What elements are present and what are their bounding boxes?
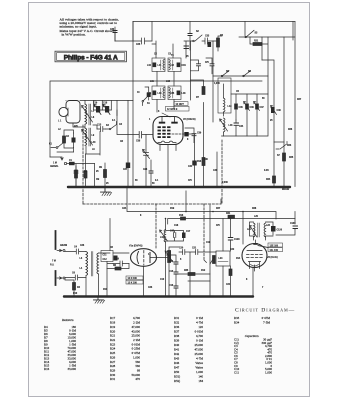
variable capacitor C19 (93, 103, 102, 115)
wire (216, 152, 218, 187)
svg-text:C126: C126 (277, 230, 283, 232)
wire (230, 219, 232, 252)
resistor R35 (188, 273, 195, 276)
trimmer capacitor C46 (244, 101, 255, 110)
trimmer capacitor C47 (254, 101, 265, 110)
svg-text:R27: R27 (297, 99, 302, 101)
svg-text:GRAM: GRAM (60, 244, 67, 247)
dashed gang link horizontal (83, 203, 221, 205)
svg-text:C16: C16 (169, 285, 174, 287)
svg-text:C22: C22 (230, 249, 235, 251)
svg-text:M1199: M1199 (282, 189, 290, 191)
node dots AF rails (63, 186, 244, 298)
wire (292, 22, 294, 41)
svg-text:C25: C25 (136, 44, 141, 46)
svg-text:C28: C28 (143, 169, 148, 171)
valve V2 UCH41 (153, 117, 184, 145)
capacitor C31 (147, 93, 151, 98)
svg-text:R18: R18 (179, 215, 184, 217)
capacitor C37 (210, 64, 214, 66)
wire (64, 130, 74, 152)
transformer T2 (80, 252, 99, 277)
capacitor C9 (113, 259, 129, 267)
capacitor C10 (114, 256, 118, 261)
svg-text:0·25M: 0·25M (132, 347, 141, 351)
wire (261, 37, 263, 60)
capacitor C6 (65, 273, 86, 281)
svg-text:V3 (UL41): V3 (UL41) (267, 256, 278, 259)
svg-text:C12: C12 (103, 259, 108, 261)
svg-text:R23: R23 (287, 145, 292, 147)
svg-text:AERIAL: AERIAL (50, 165, 59, 168)
wire (184, 41, 189, 58)
wire (75, 178, 77, 187)
svg-text:R25: R25 (289, 157, 294, 159)
capacitor C130 (293, 226, 298, 229)
resistor R22 (202, 87, 205, 95)
transformer T1 tuned winding (82, 104, 95, 125)
node junction dots bus2 (73, 295, 254, 297)
svg-text:C35: C35 (170, 93, 175, 95)
svg-text:R27: R27 (110, 360, 116, 364)
svg-text:C10: C10 (160, 279, 165, 281)
wire (274, 141, 284, 143)
svg-text:7 M: 7 M (52, 261, 56, 263)
svg-text:C14: C14 (169, 260, 174, 263)
capacitor C20 (179, 248, 185, 255)
resistor R1 (75, 170, 78, 178)
capacitor C27 (126, 163, 130, 169)
tone network box (216, 251, 230, 266)
ground symbol 2 (94, 298, 104, 300)
svg-text:V2 (UCH41): V2 (UCH41) (183, 118, 196, 121)
wire (262, 60, 274, 176)
svg-text:C38: C38 (136, 141, 141, 143)
svg-text:R47: R47 (174, 366, 180, 370)
svg-text:68: 68 (137, 369, 141, 373)
wire top HT rail (133, 21, 295, 23)
svg-text:0·1M: 0·1M (196, 316, 203, 320)
svg-text:R31: R31 (174, 316, 180, 320)
trimmer capacitor C14b (143, 149, 150, 158)
svg-text:R39: R39 (174, 339, 180, 343)
wire (127, 101, 129, 188)
capacitor C43 (182, 233, 186, 239)
svg-text:7·5M: 7·5M (263, 321, 270, 325)
wire (212, 41, 214, 122)
svg-text:R21: R21 (110, 334, 116, 338)
resistor R25 (283, 153, 286, 161)
wire top rail of tuner (85, 100, 133, 102)
svg-text:C30: C30 (110, 29, 115, 31)
svg-text:R26: R26 (288, 129, 293, 131)
resistor R4 (84, 171, 87, 178)
svg-text:C128: C128 (234, 239, 240, 241)
wire long vertical x133 (132, 22, 134, 188)
wire (189, 22, 191, 34)
svg-text:R22: R22 (110, 338, 116, 342)
svg-text:184: 184 (198, 379, 203, 383)
wire (179, 252, 216, 297)
svg-text:C46: C46 (250, 106, 255, 109)
node AE terminal (64, 162, 66, 164)
capacitor C21 (192, 248, 198, 255)
capacitor C126 (271, 226, 276, 232)
diagonal connector (162, 113, 170, 117)
wire (57, 132, 100, 156)
svg-text:R42: R42 (174, 352, 180, 356)
wire (114, 33, 116, 42)
wire heater drop (185, 191, 187, 212)
wire (294, 22, 296, 187)
coil L16 adjustable (220, 118, 234, 136)
wire (206, 58, 212, 74)
capacitor C31 (188, 34, 192, 36)
svg-text:R34: R34 (234, 321, 240, 325)
wire (210, 205, 231, 296)
wire (191, 60, 199, 71)
coil L1 frame aerial loop (58, 101, 80, 124)
svg-text:R43: R43 (174, 357, 180, 361)
dashed link (203, 204, 205, 260)
resistor R15 (229, 269, 232, 276)
wire (94, 101, 118, 116)
capacitor C15 (174, 272, 178, 274)
svg-text:C40: C40 (213, 169, 218, 172)
wire (148, 97, 150, 100)
svg-text:R16: R16 (44, 367, 50, 371)
capacitor C16 (174, 286, 178, 288)
col1 refs (44, 325, 50, 371)
svg-text:C23: C23 (148, 287, 153, 289)
resistor R4b (73, 283, 81, 291)
svg-text:0·05: 0·05 (264, 170, 269, 172)
capacitor C44 (234, 120, 244, 136)
svg-text:C33: C33 (205, 36, 210, 38)
volume control R7 (165, 251, 173, 263)
svg-text:C42: C42 (170, 230, 175, 233)
svg-text:P.U.: P.U. (50, 265, 55, 267)
wire top cap (255, 240, 257, 243)
svg-text:4·7M: 4·7M (196, 357, 203, 361)
AGC line hooks (220, 199, 222, 204)
Philips model box (55, 51, 126, 62)
switch S1 contacts (56, 147, 58, 149)
svg-text:C19: C19 (206, 242, 211, 244)
dashed link to volume control (155, 204, 157, 248)
wire (150, 160, 152, 187)
second ground bus (64, 295, 253, 297)
svg-text:C39: C39 (197, 133, 202, 135)
wire (117, 110, 195, 135)
coil L21 L22 detector transformer (247, 223, 271, 237)
svg-text:R17: R17 (110, 316, 116, 320)
wire (189, 36, 191, 51)
wire (213, 36, 222, 51)
potentiometer R20 (210, 256, 215, 265)
svg-text:R38: R38 (174, 334, 180, 338)
capacitor C4 (65, 246, 86, 255)
wire (86, 253, 110, 297)
resistor R18 (181, 217, 186, 220)
wire (185, 128, 194, 143)
box label wide (166, 106, 190, 111)
svg-text:C34: C34 (182, 64, 187, 67)
svg-text:1M: 1M (96, 179, 99, 181)
wire (165, 219, 167, 297)
wire (176, 274, 210, 281)
svg-text:140: 140 (198, 375, 203, 379)
IF transformer L15 L16 can (147, 86, 165, 100)
switch S1a (142, 100, 144, 102)
wire (152, 41, 173, 58)
trimmer capacitor C48 (271, 105, 282, 114)
capacitor C24 (184, 46, 189, 49)
svg-text:C47: C47 (260, 106, 265, 109)
ground symbol (101, 188, 111, 192)
wire (66, 101, 85, 129)
svg-text:R50: R50 (174, 370, 180, 374)
svg-text:R10: R10 (73, 293, 78, 295)
svg-text:0·01M: 0·01M (195, 330, 204, 334)
svg-text:Philips - F4G 41 A: Philips - F4G 41 A (64, 55, 118, 62)
svg-text:C13: C13 (97, 124, 102, 126)
wire (86, 154, 95, 187)
wire (145, 135, 147, 153)
capacitor C30 (113, 31, 117, 33)
svg-text:C11: C11 (234, 370, 239, 374)
wire (151, 22, 153, 42)
wire (250, 222, 274, 240)
wire (132, 22, 134, 42)
svg-text:R12: R12 (201, 270, 206, 272)
box labels V1a (126, 276, 143, 280)
capacitor C13 (97, 124, 106, 131)
wire (75, 166, 77, 187)
coil L3 L4 lower winding (82, 128, 97, 146)
capacitor C1 (69, 162, 75, 165)
wire (190, 41, 192, 100)
capacitor C42 (170, 230, 176, 238)
switch S3 (245, 36, 247, 38)
svg-text:R19: R19 (170, 208, 175, 210)
svg-text:R31: R31 (226, 213, 231, 215)
svg-text:Varies: Varies (195, 361, 204, 365)
wire oscillator top rail (213, 76, 268, 94)
svg-text:12 1877: 12 1877 (176, 104, 185, 106)
wire (250, 37, 268, 76)
resistor R2 (63, 136, 66, 143)
svg-text:minimum; no signal input.: minimum; no signal input. (60, 25, 98, 29)
resistor R9 (104, 170, 107, 178)
ground bus chassis (68, 186, 290, 188)
svg-text:12 K 100: 12 K 100 (128, 282, 138, 284)
box label DK96 (174, 102, 188, 106)
wire (157, 100, 174, 113)
svg-text:R14: R14 (236, 257, 241, 260)
svg-text:0·1M: 0·1M (196, 339, 203, 343)
svg-text:C48: C48 (277, 109, 282, 112)
wire (194, 134, 196, 187)
dashed gang link vertical left (82, 125, 84, 204)
capacitor C39 (192, 134, 196, 136)
capacitor C32 (208, 42, 212, 47)
wire oscillator mid frame (222, 94, 269, 136)
svg-text:C41: C41 (188, 165, 193, 168)
capacitor C36 (197, 64, 201, 66)
svg-text:C11: C11 (103, 255, 108, 257)
coil L14 (224, 84, 233, 116)
wire main AF rail (127, 187, 276, 219)
svg-text:R31: R31 (110, 377, 116, 381)
wire (104, 163, 106, 187)
svg-text:R21: R21 (254, 41, 259, 43)
svg-text:C15: C15 (169, 271, 174, 273)
valve V1a (131, 249, 170, 267)
svg-text:Resistors.: Resistors. (61, 318, 74, 322)
switch arrow K2 (109, 128, 111, 130)
capacitor C23 (74, 171, 78, 173)
switch S9 (243, 75, 245, 77)
pickup terminals (50, 231, 65, 285)
note text (60, 18, 119, 37)
svg-text:C18: C18 (103, 103, 108, 105)
svg-text:12 1878 9: 12 1878 9 (167, 109, 178, 111)
wire (236, 94, 257, 136)
svg-text:12L 100: 12L 100 (270, 250, 279, 252)
svg-text:R28: R28 (252, 208, 257, 210)
wire (203, 103, 205, 188)
aerial arrow (50, 157, 63, 160)
svg-text:560: 560 (135, 360, 140, 364)
svg-text:C17: C17 (186, 231, 191, 233)
svg-text:V1a (EAF41): V1a (EAF41) (129, 245, 143, 248)
resistor R3 (217, 38, 220, 47)
valve V3 (242, 244, 267, 272)
wire (283, 37, 285, 153)
oscillator box (218, 78, 231, 113)
svg-text:Capacitors.: Capacitors. (245, 334, 260, 338)
svg-text:C26: C26 (80, 245, 85, 247)
svg-text:R24: R24 (266, 178, 271, 181)
wire (252, 268, 254, 297)
parts list (44, 316, 272, 383)
wire (239, 36, 295, 38)
svg-text:C27: C27 (123, 169, 128, 171)
wire (273, 183, 275, 187)
svg-text:R46: R46 (174, 361, 180, 365)
svg-text:C21: C21 (192, 248, 197, 250)
svg-text:12 D 100: 12 D 100 (128, 278, 138, 280)
wire (294, 212, 296, 225)
svg-text:R52): R52) (174, 379, 180, 383)
svg-text:C45: C45 (239, 106, 244, 109)
svg-text:Varies: Varies (195, 366, 204, 370)
svg-text:C24: C24 (122, 207, 127, 210)
svg-text:R26: R26 (110, 355, 116, 359)
wire (276, 229, 295, 236)
svg-text:R13: R13 (197, 161, 202, 163)
svg-text:R27: R27 (216, 208, 221, 210)
svg-text:12E 100: 12E 100 (270, 245, 279, 247)
resistor R21 (253, 43, 262, 46)
wire (93, 125, 109, 129)
svg-text:R35: R35 (184, 270, 189, 272)
trimmer capacitor C45 (234, 104, 243, 110)
svg-text:2·2M: 2·2M (133, 338, 140, 342)
dashed gang link vertical right (221, 140, 223, 204)
wire (166, 255, 176, 296)
IF transformer L10 L11 can (147, 58, 165, 72)
wire (283, 161, 285, 187)
svg-text:R36: R36 (174, 325, 180, 329)
capacitor C2 (66, 133, 76, 148)
wire (107, 219, 129, 296)
switch S2 (193, 40, 195, 42)
svg-text:R41: R41 (174, 348, 180, 352)
switch S6 (276, 142, 287, 150)
resistor R8 (113, 265, 121, 270)
svg-text:R51): R51) (174, 375, 180, 379)
wire (145, 87, 149, 93)
wire (143, 266, 145, 296)
svg-text:R19: R19 (110, 325, 116, 329)
box labels V3 (268, 243, 283, 247)
wire (168, 219, 295, 225)
C11 cluster box (101, 251, 113, 262)
svg-text:1,000: 1,000 (214, 83, 220, 85)
svg-text:R11: R11 (103, 289, 108, 291)
variable capacitor C18 (102, 103, 111, 115)
IF transformer L12 L13 can (168, 58, 186, 72)
wire (65, 278, 74, 297)
svg-text:1 M: 1 M (53, 163, 57, 165)
wire (114, 27, 116, 41)
resistor R24 (273, 176, 276, 183)
svg-text:R37: R37 (174, 330, 180, 334)
wire (169, 247, 179, 297)
resistor R13 (202, 158, 205, 166)
capacitor C38 (139, 132, 141, 139)
wire (107, 264, 129, 269)
svg-text:R40: R40 (174, 343, 180, 347)
svg-text:R32: R32 (174, 321, 180, 325)
svg-text:R24: R24 (110, 347, 116, 351)
wire (67, 164, 95, 171)
capacitor C41 (192, 161, 196, 166)
svg-text:C20: C20 (179, 248, 184, 250)
wire (157, 72, 174, 87)
svg-text:470: 470 (135, 377, 140, 381)
wire (242, 212, 244, 245)
node grid junction (184, 132, 188, 136)
capacitor C33 (202, 38, 213, 44)
svg-text:in W/W position.: in W/W position. (62, 33, 86, 37)
resistor R31 (228, 215, 235, 218)
svg-text:C44: C44 (239, 125, 244, 128)
svg-text:C130: C130 (290, 223, 296, 225)
svg-text:C18: C18 (174, 225, 179, 227)
svg-text:120: 120 (198, 325, 203, 329)
capacitor C128 (228, 238, 240, 242)
wire (191, 80, 204, 87)
wire (145, 155, 147, 187)
svg-text:C21: C21 (226, 284, 231, 286)
capacitor C14 (174, 262, 178, 264)
svg-text:4·7M: 4·7M (196, 321, 203, 325)
coil L19 adjustable (160, 230, 168, 243)
svg-text:2,000: 2,000 (222, 182, 228, 184)
